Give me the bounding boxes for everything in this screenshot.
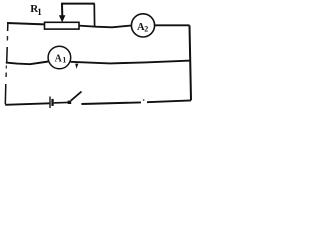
wire A2 to top-right corner [154, 24, 189, 26]
wire left vertical (broken scan segments) [7, 23, 9, 32]
ammeter A1 [48, 46, 71, 69]
svg-text:A: A [55, 54, 63, 65]
wire rheostat tap right vertical [93, 4, 95, 27]
wire A1 to right vertical [71, 61, 191, 64]
ammeter A2 [131, 14, 154, 37]
scan speck on bottom wire [143, 99, 145, 100]
wire battery to switch [54, 101, 68, 104]
switch contact dot [68, 101, 72, 104]
resistor R1 body [45, 22, 80, 29]
wire switch to bottom-right corner [81, 102, 141, 104]
wire rheostat tap top [61, 3, 95, 5]
battery long plate [49, 97, 51, 109]
rheostat wiper arrow [61, 4, 63, 17]
wire right vertical [190, 25, 192, 100]
wire resistor to ammeter A2 [79, 26, 132, 28]
current direction arrowhead below wire [75, 64, 78, 69]
battery short thick plate [51, 99, 53, 106]
svg-text:1: 1 [62, 56, 66, 65]
switch blade (open) [71, 92, 82, 101]
svg-text:2: 2 [144, 25, 148, 34]
wire bottom-left to battery [5, 103, 49, 105]
svg-text:1: 1 [37, 7, 42, 17]
wire middle-left to ammeter A1 [6, 62, 49, 65]
wire top-left horizontal [7, 23, 45, 24]
